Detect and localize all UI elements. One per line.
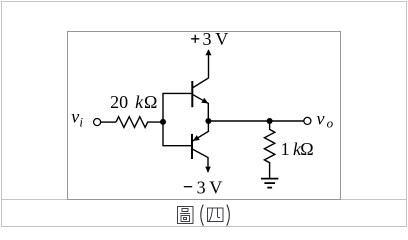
wire vi to R1 <box>101 121 116 123</box>
resistor R2 (1 kOhm, vertical) <box>264 121 274 178</box>
caption glyph SI (four) <box>208 208 224 222</box>
svg-text:o: o <box>327 115 334 130</box>
Q1 emitter (diagonal, NPN arrow) <box>192 94 208 121</box>
svg-text:i: i <box>79 114 83 129</box>
ground symbol <box>261 178 278 180</box>
label -3V minus sign <box>184 186 192 188</box>
Q1 collector arrowhead (to +3V) <box>206 49 212 55</box>
figure frame box <box>67 31 341 200</box>
node A <box>160 119 166 125</box>
svg-text:V: V <box>209 177 222 197</box>
Q2 collector arrowhead (to -3V) <box>205 167 211 173</box>
svg-text:20: 20 <box>110 92 128 112</box>
label +3V plus sign <box>191 35 199 43</box>
Q1 collector wire to +3V <box>192 50 208 88</box>
svg-text:1: 1 <box>281 139 290 159</box>
svg-text:v: v <box>71 106 79 126</box>
transistor Q2 base bar <box>191 134 193 159</box>
caption close paren <box>227 205 230 226</box>
terminal vi (open circle) <box>94 119 101 126</box>
wire base bus (node A up/down to transistor bases) <box>163 93 192 145</box>
terminal vo (open circle) <box>304 117 311 124</box>
Q2 collector wire to -3V <box>192 149 208 172</box>
table row separator line <box>2 199 406 200</box>
svg-text:V: V <box>215 29 228 49</box>
svg-text:Ω: Ω <box>300 139 313 159</box>
svg-text:v: v <box>317 109 325 129</box>
svg-text:Ω: Ω <box>144 92 157 112</box>
svg-text:3: 3 <box>203 29 212 49</box>
caption open paren <box>201 205 204 226</box>
Q2 emitter wire from node B <box>192 121 208 141</box>
Q2 emitter arrowhead (PNP, points into bar) <box>193 135 200 141</box>
node C <box>267 118 273 124</box>
caption glyph TU (figure) <box>178 207 194 224</box>
transistor Q1 base bar <box>191 81 193 107</box>
node B (emitters junction / output node) <box>205 118 211 124</box>
svg-text:3: 3 <box>197 177 206 197</box>
Q1 emitter arrowhead <box>201 98 208 104</box>
output rail wire node B to vo <box>208 120 304 122</box>
svg-text:k: k <box>135 92 144 112</box>
resistor R1 <box>116 117 163 128</box>
